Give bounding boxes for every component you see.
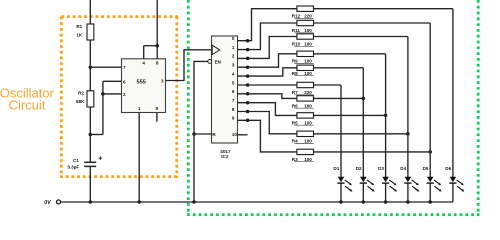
wire R1 to node A <box>89 40 91 67</box>
label underline of R12 <box>295 18 314 20</box>
wire R3 to LED column <box>314 151 431 153</box>
resistor R7 <box>297 82 314 87</box>
junction D5/rail <box>428 200 432 204</box>
svg-text:4: 4 <box>232 71 235 76</box>
label underline of R3 <box>295 161 314 163</box>
svg-text:100: 100 <box>304 59 312 64</box>
label underline of R8 <box>295 75 314 77</box>
wire output 3 to resistor row <box>238 54 297 67</box>
svg-text:6: 6 <box>123 79 126 84</box>
junction D4/rail <box>406 200 410 204</box>
wire R11 to LED column <box>314 22 431 24</box>
label underline of R4 <box>295 143 314 145</box>
wire R2 to node B <box>89 107 91 135</box>
svg-text:0V: 0V <box>44 200 51 206</box>
junction at output 3 <box>246 65 250 69</box>
svg-text:555: 555 <box>137 79 146 85</box>
emission arrows of D4 <box>412 180 420 192</box>
capacitor C1 <box>84 162 96 166</box>
wire output 5 to R7 <box>238 84 297 86</box>
wire pins 6-2 vertical <box>102 81 104 134</box>
junction R4/column <box>406 132 410 136</box>
svg-text:0: 0 <box>232 36 235 41</box>
svg-text:100: 100 <box>304 139 312 144</box>
svg-text:1K: 1K <box>76 33 83 38</box>
junction R5/column <box>384 114 388 118</box>
LED D4 <box>404 177 411 183</box>
svg-text:R1: R1 <box>76 24 82 29</box>
wire R5 to LED column <box>314 114 386 116</box>
junction EN-R wire/rail <box>192 200 196 204</box>
svg-text:R7: R7 <box>292 90 298 95</box>
junction at output 5 <box>246 83 250 87</box>
svg-text:R11: R11 <box>292 28 301 33</box>
label underline of R9 <box>295 63 314 65</box>
resistor R9 <box>297 51 314 56</box>
emission arrows of D1 <box>345 180 353 192</box>
wire output 1 to resistor row <box>238 23 297 50</box>
wire node B to C1 <box>89 135 91 163</box>
resistor R6 <box>297 96 314 101</box>
wire output 0 to resistor row <box>238 9 297 41</box>
svg-text:Circuit: Circuit <box>9 97 46 112</box>
svg-text:4: 4 <box>142 61 145 66</box>
svg-text:R12: R12 <box>292 14 301 19</box>
junction R6/column <box>362 97 366 101</box>
svg-text:D1: D1 <box>333 166 339 171</box>
resistor R11 <box>297 20 314 25</box>
wire R input <box>194 133 212 135</box>
svg-text:10: 10 <box>232 132 238 137</box>
junction at output 1 <box>246 48 250 52</box>
svg-text:8: 8 <box>156 61 159 66</box>
svg-text:7: 7 <box>123 65 126 70</box>
caption: Oscillator Circuit <box>0 86 55 113</box>
svg-text:IC2: IC2 <box>221 154 229 159</box>
emission arrows of D3 <box>389 180 397 192</box>
clock input triangle of IC2 <box>212 45 220 54</box>
enable input circle of IC2 <box>208 60 212 64</box>
junction at output 6 <box>246 92 250 96</box>
svg-text:9: 9 <box>232 116 235 121</box>
resistor R12 <box>297 6 314 11</box>
oscillator section boundary (orange dotted box) <box>60 17 178 178</box>
emission arrows of D2 <box>367 180 375 192</box>
svg-text:EN: EN <box>215 60 222 65</box>
junction C1/rail <box>89 200 93 204</box>
wire 555 pin 2 branch <box>103 93 122 95</box>
svg-text:R4: R4 <box>292 139 298 144</box>
resistor R1 <box>87 24 94 40</box>
wire R12 to LED column <box>314 8 453 10</box>
svg-text:1: 1 <box>232 45 235 50</box>
counter IC2 4017 body <box>212 36 238 143</box>
svg-text:+: + <box>98 153 103 162</box>
svg-text:68K: 68K <box>76 99 85 104</box>
wire anode column D5 <box>429 23 431 177</box>
LED D5 <box>427 177 434 183</box>
svg-text:3.3µF: 3.3µF <box>67 165 79 170</box>
wire node A to 555 pin 7 <box>90 66 121 68</box>
wire cathode D2 to rail <box>362 183 364 202</box>
svg-text:R8: R8 <box>292 71 298 76</box>
junction at output 9 <box>246 119 250 123</box>
junction at output 8 <box>246 110 250 114</box>
junction at output 4 <box>246 74 250 78</box>
svg-text:100: 100 <box>304 71 312 76</box>
svg-text:3: 3 <box>232 63 235 68</box>
svg-text:R5: R5 <box>292 120 298 125</box>
svg-text:220: 220 <box>304 14 312 19</box>
wire anode column D4 <box>407 37 409 178</box>
wire output 8 to resistor row <box>238 112 297 134</box>
svg-text:7: 7 <box>232 98 235 103</box>
wire C1 to 0V rail <box>89 167 91 202</box>
0V terminal <box>57 200 61 204</box>
LED D2 <box>360 177 367 183</box>
wire cathode D4 to rail <box>407 183 409 202</box>
0V rail <box>61 201 453 203</box>
junction D1/rail <box>339 200 343 204</box>
junction at output 0 <box>246 39 250 43</box>
resistor R4 <box>297 131 314 136</box>
wire cathode D5 to rail <box>429 183 431 202</box>
svg-text:5: 5 <box>232 80 235 85</box>
wire pin 1 to 0V rail <box>138 113 140 203</box>
wire output 7 to resistor row <box>238 103 297 116</box>
wire anode column D6 <box>452 9 454 177</box>
timer IC1 555 body <box>122 59 166 113</box>
svg-text:R10: R10 <box>292 41 301 46</box>
wire output 9 to resistor row <box>238 120 297 152</box>
svg-text:D5: D5 <box>423 166 429 171</box>
wire R6 to LED column <box>314 97 364 99</box>
wire +V supply to R1 <box>89 0 91 24</box>
node pin2 junction <box>101 92 105 96</box>
emission arrows of D5 <box>434 180 442 192</box>
wire pin 4 up <box>143 46 145 59</box>
label underline of R6 <box>295 107 314 109</box>
junction R3/column <box>428 150 432 154</box>
wire 555 pin 6 branch <box>103 80 122 82</box>
wire pin 8 up <box>156 46 158 59</box>
node A junction (R1/R2/pin7) <box>89 65 93 69</box>
svg-text:8: 8 <box>232 107 235 112</box>
junction pin1/rail <box>137 200 141 204</box>
svg-text:D2: D2 <box>356 166 362 171</box>
svg-text:2: 2 <box>232 54 235 59</box>
svg-text:2: 2 <box>123 92 126 97</box>
resistor R10 <box>297 34 314 39</box>
wire 555 pin 3 output <box>166 50 212 81</box>
svg-text:3: 3 <box>161 79 164 84</box>
svg-text:1: 1 <box>138 106 141 111</box>
node B junction (R2/C1/pins 2+6) <box>89 133 93 137</box>
svg-text:D6: D6 <box>445 166 451 171</box>
wire node A to R2 <box>89 67 91 91</box>
svg-text:6: 6 <box>232 89 235 94</box>
emission arrows of D6 <box>457 180 465 192</box>
label underline of R7 <box>295 94 314 96</box>
svg-text:100: 100 <box>304 103 312 108</box>
wire R4 to LED column <box>314 133 408 135</box>
LED D3 <box>382 177 389 183</box>
svg-text:R2: R2 <box>78 90 84 95</box>
wire anode column D2 <box>362 68 364 177</box>
wire anode column D1 <box>340 85 342 177</box>
svg-text:100: 100 <box>304 41 312 46</box>
svg-text:100: 100 <box>304 120 312 125</box>
wire EN to ground <box>194 61 208 202</box>
wire anode column D3 <box>385 54 387 177</box>
LED D6 <box>449 177 456 183</box>
wire cathode D3 to rail <box>385 183 387 202</box>
junction D2/rail <box>362 200 366 204</box>
wire cathode D6 to rail <box>452 183 454 202</box>
wire output 4 to resistor row <box>238 68 297 76</box>
junction at output 2 <box>246 57 250 61</box>
resistor R8 <box>297 65 314 70</box>
junction supply riser <box>155 44 159 48</box>
resistor R5 <box>297 113 314 118</box>
svg-text:D4: D4 <box>400 166 406 171</box>
junction EN/R <box>192 132 196 136</box>
wire R7 to LED column <box>314 84 342 86</box>
resistor R2 <box>87 91 94 107</box>
wire pins 4-8 bracket <box>144 45 158 47</box>
wire pins 2+6 down to node B <box>90 134 103 136</box>
svg-text:R6: R6 <box>292 103 298 108</box>
wire pin 5 stub <box>156 113 158 122</box>
wire R8 to LED column <box>314 67 364 69</box>
svg-text:220: 220 <box>304 90 312 95</box>
wire R9 to LED column <box>314 53 386 55</box>
wire +V supply riser <box>156 0 158 46</box>
svg-text:5: 5 <box>156 106 159 111</box>
svg-text:R3: R3 <box>292 157 298 162</box>
svg-text:100: 100 <box>304 157 312 162</box>
LED D1 <box>337 177 344 183</box>
label underline of R11 <box>295 32 314 34</box>
label underline of R10 <box>295 45 314 47</box>
LED chaser section boundary (green dotted box) <box>187 0 480 216</box>
label underline of R5 <box>295 124 314 126</box>
junction at output 7 <box>246 101 250 105</box>
junction D3/rail <box>384 200 388 204</box>
wire output 2 to resistor row <box>238 37 297 59</box>
wire R10 to LED column <box>314 36 408 38</box>
wire output 6 to resistor row <box>238 94 297 99</box>
wire cathode D1 to rail <box>340 183 342 202</box>
svg-text:C1: C1 <box>73 158 79 163</box>
svg-text:D3: D3 <box>378 166 384 171</box>
svg-text:100: 100 <box>304 28 312 33</box>
svg-text:R9: R9 <box>292 59 298 64</box>
wire pin 10 stub <box>238 134 248 136</box>
resistor R3 <box>297 149 314 154</box>
